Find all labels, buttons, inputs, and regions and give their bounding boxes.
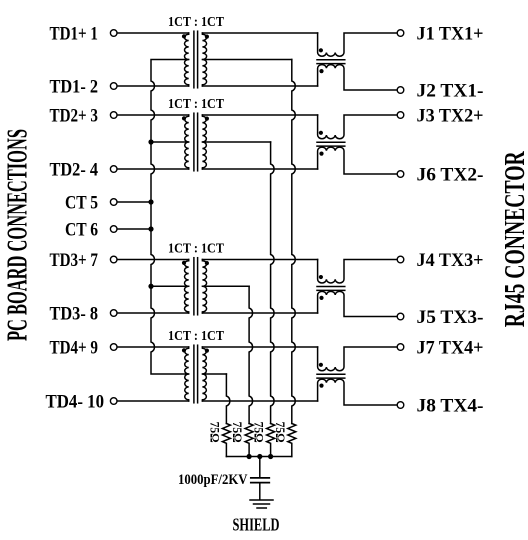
svg-text:PC BOARD CONNECTIONS: PC BOARD CONNECTIONS [1,129,33,341]
svg-text:SHIELD: SHIELD [233,515,280,535]
svg-text:J6 TX2-: J6 TX2- [417,166,484,186]
svg-text:1CT : 1CT: 1CT : 1CT [168,329,225,344]
svg-text:TD2+ 3: TD2+ 3 [50,107,99,127]
svg-text:J3 TX2+: J3 TX2+ [417,107,484,127]
svg-text:TD4- 10: TD4- 10 [46,393,105,413]
svg-text:J1 TX1+: J1 TX1+ [417,25,484,45]
svg-text:J4 TX3+: J4 TX3+ [417,251,484,271]
svg-text:TD2- 4: TD2- 4 [50,161,99,181]
svg-text:RJ45 CONNECTOR: RJ45 CONNECTOR [499,151,528,328]
svg-text:75Ω: 75Ω [252,422,266,443]
svg-text:1CT : 1CT: 1CT : 1CT [168,242,225,257]
svg-text:TD3+ 7: TD3+ 7 [50,251,99,271]
svg-text:TD1+ 1: TD1+ 1 [50,25,99,45]
svg-text:J7 TX4+: J7 TX4+ [417,339,484,359]
svg-text:TD1- 2: TD1- 2 [50,78,99,98]
svg-text:J8 TX4-: J8 TX4- [417,397,484,417]
svg-text:75Ω: 75Ω [230,422,244,443]
svg-text:75Ω: 75Ω [207,422,221,443]
svg-text:1000pF/2KV: 1000pF/2KV [178,472,248,488]
svg-text:1CT : 1CT: 1CT : 1CT [168,15,225,30]
svg-text:CT 6: CT 6 [65,221,98,241]
svg-text:1CT : 1CT: 1CT : 1CT [168,97,225,112]
svg-text:TD3- 8: TD3- 8 [50,305,99,325]
svg-text:CT 5: CT 5 [65,194,98,214]
svg-text:J5 TX3-: J5 TX3- [417,308,484,328]
svg-text:J2 TX1-: J2 TX1- [417,82,484,102]
svg-text:75Ω: 75Ω [273,422,287,443]
svg-text:TD4+ 9: TD4+ 9 [50,339,99,359]
